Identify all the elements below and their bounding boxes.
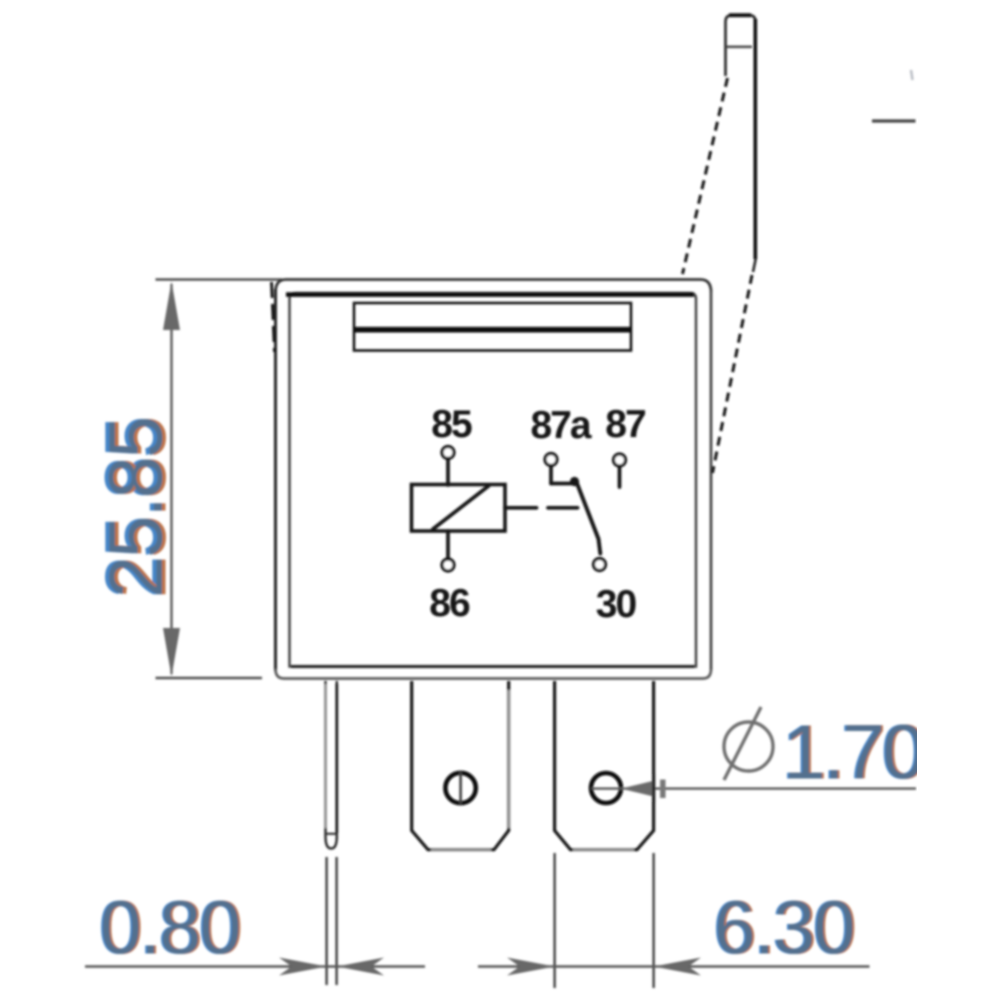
svg-text:0.80: 0.80 bbox=[100, 886, 240, 970]
svg-text:1.70: 1.70 bbox=[783, 710, 923, 796]
svg-text:86: 86 bbox=[429, 582, 470, 625]
svg-text:87a: 87a bbox=[530, 404, 591, 447]
svg-text:25.85: 25.85 bbox=[94, 418, 179, 598]
svg-text:87: 87 bbox=[605, 403, 645, 446]
svg-text:6.30: 6.30 bbox=[714, 886, 854, 970]
svg-text:30: 30 bbox=[596, 583, 637, 626]
svg-text:85: 85 bbox=[431, 403, 472, 446]
